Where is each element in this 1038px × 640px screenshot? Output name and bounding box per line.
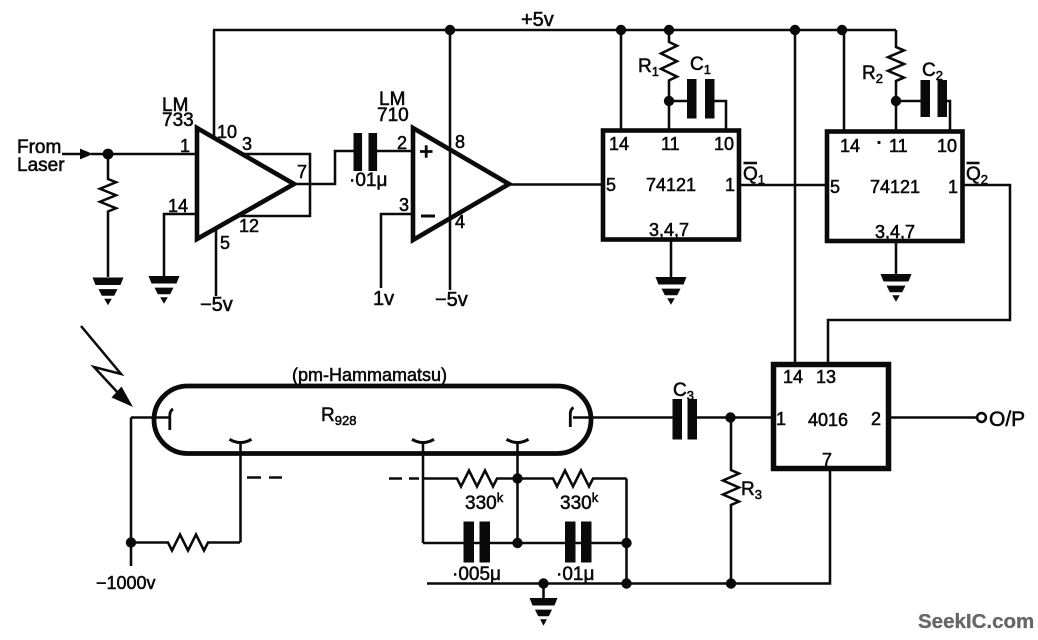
op-amp U1 LM733 <box>197 128 294 239</box>
wire +5v to 4016 pin14 <box>794 30 797 364</box>
svg-text:SeekIC.com: SeekIC.com <box>918 610 1034 633</box>
wire U1 pin10 to +5v <box>213 30 216 140</box>
svg-text:3,4,7: 3,4,7 <box>649 220 689 240</box>
node input junction <box>103 149 114 160</box>
node R2 C2 junction <box>891 96 901 106</box>
wire dynode3 lead <box>516 443 519 543</box>
resistor 330k first <box>423 471 518 487</box>
dynode 1 electrode <box>230 439 252 442</box>
capacitor C1 <box>687 79 715 119</box>
wire bottom ground line to 4016 pin7 <box>427 469 830 584</box>
resistor 330k second <box>518 471 627 487</box>
capacitor C2 <box>921 80 948 117</box>
svg-text:14: 14 <box>840 136 860 156</box>
wire U1 pin5 to -5v <box>215 227 218 296</box>
wire R2 node to C2 <box>896 100 921 103</box>
wire C1 to 74121a pin10 <box>715 101 727 131</box>
wire C2 to 74121b pin10 <box>947 101 950 132</box>
svg-text:11: 11 <box>661 134 680 154</box>
wire cap to U2 pin2 <box>377 150 413 153</box>
svg-text:733: 733 <box>162 110 194 131</box>
node ground junction <box>538 578 548 588</box>
svg-text:1v: 1v <box>373 288 394 310</box>
plus sign U2 <box>420 145 433 158</box>
svg-text:8: 8 <box>455 132 465 152</box>
wire anode to C3 <box>573 416 673 419</box>
wire 74121a pin14 to +5v <box>620 30 623 131</box>
node C3 R3 junction <box>725 412 735 422</box>
node R1 C1 junction <box>664 96 674 106</box>
svg-text:14: 14 <box>783 367 803 387</box>
svg-text:12: 12 <box>239 216 259 236</box>
node 330k bottom line junction <box>621 578 631 588</box>
svg-text:5: 5 <box>606 175 616 195</box>
wire Q1bar to 74121b pin5 <box>739 184 827 187</box>
anode electrode <box>570 408 573 428</box>
wire input <box>62 153 80 156</box>
svg-text:3: 3 <box>242 134 252 154</box>
svg-text:1: 1 <box>776 409 786 429</box>
scan speck near pin 11 <box>877 141 880 144</box>
svg-text:·01μ: ·01μ <box>556 564 594 585</box>
svg-text:·01μ: ·01μ <box>349 170 387 191</box>
wire U1 pin14 to ground <box>164 214 197 276</box>
wire -1000v column <box>130 418 133 567</box>
wire 74121a pins 3,4,7 to ground <box>670 240 673 278</box>
node rail-74121b pin14 <box>837 25 847 35</box>
svg-text:·005μ: ·005μ <box>452 564 501 585</box>
minus sign U2 <box>421 215 435 218</box>
svg-text:74121: 74121 <box>646 175 696 195</box>
svg-text:(pm-Hammamatsu): (pm-Hammamatsu) <box>292 365 447 385</box>
node dynode3 cap junction <box>512 538 522 548</box>
photocathode electrode <box>170 409 173 430</box>
wire 74121b pins 3,4,7 to ground <box>895 241 898 274</box>
svg-text:4: 4 <box>455 212 465 232</box>
wire 74121b pin11 riser <box>895 101 898 132</box>
wire R1 node to C1 <box>669 100 687 103</box>
svg-text:10: 10 <box>217 122 237 142</box>
op-amp U2 LM710 <box>413 128 509 240</box>
svg-text:5: 5 <box>220 233 230 253</box>
svg-text:Laser: Laser <box>17 155 65 176</box>
capacitor C3 <box>673 399 698 440</box>
resistor -1000v feed <box>131 535 240 551</box>
wire U2 output to 74121a pin5 <box>509 183 603 186</box>
resistor input termination <box>100 154 116 277</box>
wire input to pin1 <box>91 153 197 156</box>
svg-text:3: 3 <box>399 195 409 215</box>
wire Q2bar to 4016 pin13 <box>828 185 1010 364</box>
lightning arrow (light input) <box>81 326 121 394</box>
svg-text:13: 13 <box>816 367 836 387</box>
svg-text:7: 7 <box>297 162 307 182</box>
node rail-LM710 pin8 <box>445 25 455 35</box>
wire 330k end down to bottom line <box>625 479 628 584</box>
ground 74121a <box>656 277 687 305</box>
svg-text:7: 7 <box>822 450 832 470</box>
svg-text:−1000v: −1000v <box>96 573 156 593</box>
svg-text:+5v: +5v <box>521 9 554 31</box>
wire U1 feedback pin3 to pin12 <box>238 154 310 216</box>
terminal O/P circle <box>977 413 986 422</box>
svg-text:2: 2 <box>397 133 407 153</box>
capacitor .01u interstage <box>354 133 378 171</box>
wire U2 pin3 input <box>381 214 413 288</box>
svg-text:5: 5 <box>830 177 840 197</box>
node -1000v junction <box>126 537 136 547</box>
ground input resistor <box>93 278 124 306</box>
svg-text:14: 14 <box>609 134 629 154</box>
svg-text:74121: 74121 <box>870 177 920 197</box>
svg-text:710: 710 <box>377 105 409 126</box>
svg-text:−5v: −5v <box>435 289 468 311</box>
dynode 2 electrode <box>412 439 434 442</box>
capacitor .005u <box>464 522 491 563</box>
wire 74121a pin11 riser <box>668 101 671 131</box>
svg-text:11: 11 <box>889 136 908 156</box>
svg-text:1: 1 <box>948 177 958 197</box>
wire capacitor row <box>423 542 627 545</box>
dynode 3 electrode <box>507 439 529 442</box>
ground 74121b <box>881 274 912 302</box>
svg-text:O/P: O/P <box>989 408 1025 431</box>
resistor R3 <box>723 418 739 584</box>
node rail-74121a pin14 <box>616 25 626 35</box>
ground U1 pin14 <box>149 276 180 304</box>
node R3 bottom junction <box>726 578 736 588</box>
svg-text:4016: 4016 <box>808 410 848 430</box>
node 330k cap junction <box>621 538 631 548</box>
wire 74121b pin14 to +5v <box>843 30 846 132</box>
svg-text:10: 10 <box>714 134 734 154</box>
svg-text:2: 2 <box>871 409 881 429</box>
wire ground lead <box>542 584 545 599</box>
wire U1 pin7 output <box>294 151 354 184</box>
resistor R1 <box>661 30 677 101</box>
svg-text:10: 10 <box>937 136 957 156</box>
wire dynode2 lead <box>422 443 425 543</box>
wire U2 pin8 +5v to pin4 -5v <box>449 30 452 290</box>
wire 4016 pin2 output <box>889 416 978 419</box>
capacitor .01u dynode <box>565 522 592 563</box>
wire C3 to 4016 pin1 <box>697 416 774 419</box>
node rail-R1 <box>664 25 674 35</box>
svg-text:1: 1 <box>725 175 735 195</box>
ground bottom line <box>530 598 558 626</box>
input arrow <box>80 149 93 160</box>
svg-text:1: 1 <box>180 136 190 156</box>
wire dynode1 lead <box>239 443 242 543</box>
IC 74121 first monostable <box>603 131 739 240</box>
IC 4016 analog switch <box>774 365 889 469</box>
IC 74121 second monostable <box>827 132 963 242</box>
photomultiplier tube R928 <box>154 386 591 454</box>
node dynode3 resistor junction <box>512 473 522 483</box>
resistor R2 <box>888 30 904 101</box>
wire dashed continuation right of dynode1 <box>247 476 282 479</box>
wire +5v rail <box>213 29 896 32</box>
wire dashed continuation left of dynode2 <box>389 477 419 480</box>
svg-text:3,4,7: 3,4,7 <box>875 222 915 242</box>
node rail-4016 pin14 <box>790 25 800 35</box>
wire cathode to -1000v column <box>131 416 171 419</box>
svg-text:−5v: −5v <box>200 294 233 316</box>
